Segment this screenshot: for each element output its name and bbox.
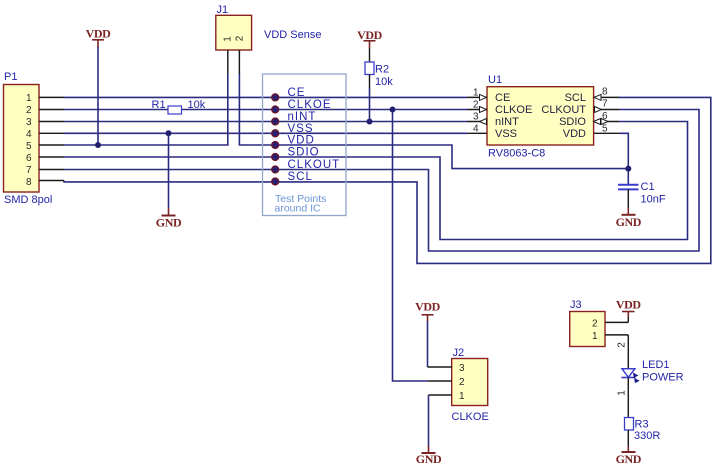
J1 pin stubs <box>228 50 240 74</box>
svg-text:VDD Sense: VDD Sense <box>264 29 321 41</box>
svg-text:VDD: VDD <box>563 128 586 140</box>
power VDD (R2) <box>357 28 383 48</box>
power VDD (left) <box>86 27 112 48</box>
svg-text:VDD: VDD <box>288 135 315 147</box>
wire CE net P1.1 to U1.1 <box>64 96 467 98</box>
test point CE <box>272 94 279 101</box>
IC U1 <box>487 74 594 160</box>
svg-text:around IC: around IC <box>275 202 322 214</box>
U1 right pin stubs <box>594 97 619 133</box>
svg-text:R1: R1 <box>152 99 166 111</box>
svg-text:nINT: nINT <box>495 116 519 128</box>
test points box <box>263 74 347 216</box>
svg-text:8: 8 <box>602 87 608 98</box>
wire VDD symbol drop to pin5 line <box>97 46 99 145</box>
svg-text:CLKOE: CLKOE <box>452 411 489 423</box>
wire VDD net J1.2 onward to U1 area <box>239 74 628 169</box>
svg-text:VDD: VDD <box>86 27 112 41</box>
svg-text:CE: CE <box>495 92 510 104</box>
wire J2 pin1 to GND <box>428 395 430 446</box>
svg-text:10nF: 10nF <box>641 194 666 206</box>
svg-text:7: 7 <box>602 99 608 110</box>
junction VSS/GND <box>166 130 172 136</box>
connector J3 <box>570 299 605 347</box>
U1 pin8 input arrow <box>594 94 601 100</box>
svg-text:VDD: VDD <box>357 28 383 42</box>
U1 pin6 bidir arrows <box>594 119 601 125</box>
U1 pin2 input arrow <box>480 107 487 113</box>
resistor R3 <box>625 418 661 453</box>
wire SCL net P1.8 loop to U1.8 <box>64 97 711 263</box>
svg-text:U1: U1 <box>488 74 502 86</box>
svg-text:1: 1 <box>26 93 32 104</box>
test point SCL <box>272 178 279 185</box>
wire J2 VDD drop <box>427 321 429 367</box>
test point CLKOE <box>272 106 279 113</box>
svg-text:RV8063-C8: RV8063-C8 <box>488 148 545 160</box>
header J1 <box>216 4 252 50</box>
resistor R2 <box>365 48 393 122</box>
connector P1 <box>4 71 53 206</box>
wire CLKOE net P1.2 to R1 left <box>64 109 168 111</box>
ground GND (R3) <box>616 452 642 466</box>
LED1 pin 1 wire and number <box>627 378 629 418</box>
svg-text:4: 4 <box>473 124 479 135</box>
svg-text:GND: GND <box>616 215 642 229</box>
svg-text:CE: CE <box>288 87 306 99</box>
test point SDIO <box>272 154 279 161</box>
test point CLKOUT <box>272 166 279 173</box>
ground GND (C1) <box>616 215 642 229</box>
ground GND (J2) <box>416 452 442 466</box>
svg-text:2: 2 <box>592 319 598 330</box>
U1 left pin stubs <box>467 97 487 133</box>
svg-text:J1: J1 <box>217 4 229 16</box>
svg-text:1: 1 <box>473 88 479 99</box>
svg-text:10k: 10k <box>188 99 206 111</box>
svg-text:GND: GND <box>156 216 182 230</box>
svg-text:CLKOE: CLKOE <box>495 104 532 116</box>
svg-text:VSS: VSS <box>495 128 517 140</box>
svg-text:nINT: nINT <box>288 111 317 123</box>
svg-text:10k: 10k <box>375 76 393 88</box>
LED LED1 <box>621 359 683 384</box>
wire VSS drop to GND <box>168 133 170 208</box>
svg-text:SCL: SCL <box>565 92 586 104</box>
svg-text:J2: J2 <box>453 347 465 359</box>
svg-text:LED1: LED1 <box>642 359 670 371</box>
wire CLKOE net R1 right to U1.2 <box>182 109 468 111</box>
svg-text:CLKOUT: CLKOUT <box>288 159 341 171</box>
svg-text:2: 2 <box>459 377 465 388</box>
connector J2 <box>452 347 489 423</box>
test point VSS <box>272 130 279 137</box>
power VDD (J3) <box>616 298 642 318</box>
P1 pin stubs <box>39 97 64 180</box>
junction VDD at pin5 <box>95 142 101 148</box>
svg-text:SDIO: SDIO <box>559 116 586 128</box>
test point nINT <box>272 118 279 125</box>
svg-text:4: 4 <box>26 129 32 140</box>
wire nINT net P1.3 to U1.3 <box>64 121 467 123</box>
capacitor C1 <box>618 181 666 215</box>
U1 pin3 output arrow <box>480 119 487 125</box>
svg-text:VSS: VSS <box>288 123 314 135</box>
wire U1 VDD pin drop <box>619 133 628 184</box>
U1 pin7 output arrow <box>595 107 602 113</box>
svg-text:2: 2 <box>235 35 246 41</box>
svg-text:GND: GND <box>416 452 442 466</box>
U1 pin numbers <box>473 87 608 135</box>
svg-text:3: 3 <box>473 112 479 123</box>
svg-text:GND: GND <box>616 452 642 466</box>
wire SDIO net P1.6 loop to U1.6 <box>64 122 688 240</box>
svg-text:6: 6 <box>26 153 32 164</box>
svg-text:SDIO: SDIO <box>288 147 320 159</box>
junction nINT / R2 <box>367 119 373 125</box>
wire CLKOE vertical drop to J2.2 <box>393 110 429 382</box>
svg-text:5: 5 <box>602 124 608 135</box>
wire CLKOUT net P1.7 loop to U1.7 <box>64 110 699 252</box>
svg-text:3: 3 <box>26 117 32 128</box>
svg-text:7: 7 <box>26 165 32 176</box>
svg-text:J3: J3 <box>570 299 582 311</box>
svg-text:8: 8 <box>26 177 32 188</box>
svg-text:5: 5 <box>26 141 32 152</box>
svg-text:3: 3 <box>459 363 465 374</box>
svg-text:VDD: VDD <box>415 300 441 314</box>
test point VDD <box>272 142 279 149</box>
svg-text:CLKOUT: CLKOUT <box>541 104 586 116</box>
svg-text:C1: C1 <box>641 181 655 193</box>
svg-text:1: 1 <box>223 36 234 42</box>
svg-text:CLKOE: CLKOE <box>288 99 332 111</box>
J3 pin stubs <box>605 317 628 369</box>
svg-text:R3: R3 <box>635 419 649 431</box>
svg-text:2: 2 <box>617 342 628 348</box>
junction VDD / C1 <box>625 166 631 172</box>
resistor R1 <box>152 99 206 114</box>
svg-text:R2: R2 <box>375 64 389 76</box>
junction CLKOE at R1 line <box>390 107 396 113</box>
svg-text:2: 2 <box>26 105 32 116</box>
svg-text:330R: 330R <box>634 430 660 442</box>
svg-text:VDD: VDD <box>616 298 642 312</box>
svg-text:P1: P1 <box>4 71 17 83</box>
svg-text:SMD 8pol: SMD 8pol <box>4 194 52 206</box>
U1 pin1 input arrow <box>480 94 487 100</box>
svg-text:2: 2 <box>473 100 479 111</box>
svg-text:SCL: SCL <box>288 171 313 183</box>
svg-text:1: 1 <box>459 391 465 402</box>
wire VSS net P1.4 to U1.4 <box>64 132 467 134</box>
wire VDD net P1.5 to J1.1 <box>64 74 228 145</box>
ground GND (left, VSS) <box>156 216 182 230</box>
J2 pin stubs <box>428 367 452 395</box>
svg-text:1: 1 <box>617 390 628 396</box>
power VDD (J2) <box>415 300 441 315</box>
svg-text:1: 1 <box>592 331 598 342</box>
svg-text:POWER: POWER <box>642 372 684 384</box>
